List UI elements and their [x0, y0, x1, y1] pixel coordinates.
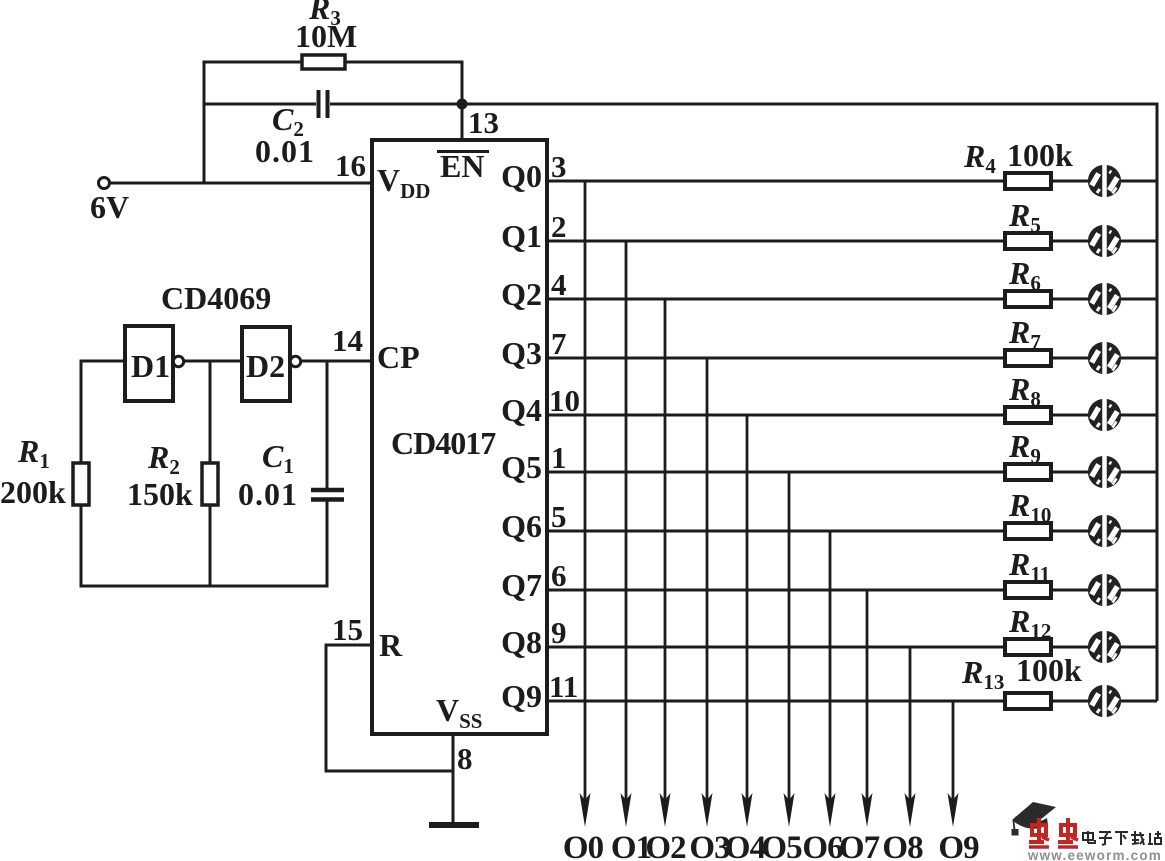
arrow: output O6: [825, 793, 836, 827]
svg-text:O8: O8: [882, 830, 923, 861]
wire: R3 loop top-right horizontal: [345, 61, 464, 64]
wire: Q9 output to resistor R13: [547, 700, 1005, 703]
arrow: output O3: [702, 793, 713, 827]
arrow: output O9: [948, 793, 959, 827]
wire: resistor R6 to LED: [1051, 298, 1088, 301]
wire: C2 left lead: [203, 103, 317, 106]
svg-text:100k: 100k: [1007, 137, 1073, 173]
inverter D2 body: [242, 327, 290, 401]
svg-text:14: 14: [332, 323, 363, 358]
wire: resistor R10 to LED: [1051, 530, 1088, 533]
capacitor C2: [317, 90, 321, 118]
wire: R2 lower lead: [209, 505, 212, 588]
logo: chongchong red characters: [1029, 818, 1078, 847]
LED VD6 (lamp symbol): [1089, 458, 1120, 487]
wire: VSS pin 8 lead: [452, 734, 455, 825]
wire: R pin vertical down: [325, 644, 328, 773]
wire: top rail to right side: [462, 103, 1159, 106]
wire: Q4 drop to output arrow O4: [746, 415, 749, 803]
svg-text:Q8: Q8: [501, 624, 542, 660]
wire: C1 lower lead: [326, 502, 329, 588]
wire: Q6 drop to output arrow O6: [829, 531, 832, 803]
wire: Q2 drop to output arrow O2: [664, 299, 667, 803]
LED VD4 (lamp symbol): [1089, 344, 1120, 373]
wire: LED to right rail: [1121, 589, 1157, 592]
wire: Q1 output to resistor R5: [547, 240, 1005, 243]
wire: LED to right rail: [1121, 700, 1157, 703]
wire: D1 output to D2 input: [185, 360, 243, 363]
svg-text:CD4017: CD4017: [391, 425, 496, 461]
svg-text:6: 6: [551, 558, 567, 593]
resistor R5: [1005, 233, 1051, 249]
wire: feedback to D1 input: [80, 360, 126, 363]
wire: resistor R8 to LED: [1051, 414, 1088, 417]
wire: resistor R13 to LED: [1051, 700, 1088, 703]
svg-text:Q3: Q3: [501, 335, 542, 371]
arrow: output O7: [862, 793, 873, 827]
wire: C2 right lead to node 13: [330, 103, 462, 106]
wire: Q6 output to resistor R10: [547, 530, 1005, 533]
wire: Q9 drop to output arrow O9: [952, 701, 955, 803]
capacitor C1: [311, 488, 344, 493]
arrow: output O1: [621, 793, 632, 827]
wire: LED to right rail: [1121, 646, 1157, 649]
arrow: output O2: [660, 793, 671, 827]
svg-text:4: 4: [551, 267, 567, 302]
wire: Q0 output to resistor R4: [547, 180, 1005, 183]
LED VD9 (lamp symbol): [1089, 633, 1120, 662]
wire: C1 upper lead: [326, 360, 329, 489]
inverter D2 output bubble: [290, 356, 300, 366]
wire: LED to right rail: [1121, 180, 1157, 183]
wire: R2 upper lead: [209, 360, 212, 464]
svg-text:Q4: Q4: [501, 392, 542, 428]
wire: R pin 15 horizontal: [325, 644, 373, 647]
svg-text:Q0: Q0: [501, 158, 542, 194]
svg-text:D2: D2: [246, 348, 285, 384]
wire: LED to right rail: [1121, 530, 1157, 533]
svg-text:0.01: 0.01: [238, 476, 298, 512]
svg-text:R: R: [379, 627, 403, 663]
svg-text:Q9: Q9: [501, 678, 542, 714]
svg-text:D1: D1: [131, 348, 170, 384]
terminal: 6V supply: [99, 178, 110, 189]
wire: resistor R5 to LED: [1051, 240, 1088, 243]
svg-text:15: 15: [332, 612, 363, 647]
wire: Q8 drop to output arrow O8: [909, 647, 912, 803]
svg-text:Q2: Q2: [501, 276, 542, 312]
wire: Q0 drop to output arrow O0: [584, 181, 587, 803]
svg-text:10: 10: [549, 383, 580, 418]
svg-text:1: 1: [551, 440, 567, 475]
resistor R11: [1005, 582, 1051, 598]
resistor R8: [1005, 407, 1051, 423]
wire: Q1 drop to output arrow O1: [625, 241, 628, 803]
wire: resistor R9 to LED: [1051, 471, 1088, 474]
wire: Q3 drop to output arrow O3: [706, 358, 709, 803]
wire: Q5 output to resistor R9: [547, 471, 1005, 474]
svg-text:13: 13: [468, 105, 499, 140]
wire: resistor R7 to LED: [1051, 357, 1088, 360]
wire: 6V supply to VDD pin 16: [110, 182, 373, 185]
svg-text:16: 16: [335, 148, 366, 183]
svg-text:O4: O4: [725, 830, 766, 861]
wire: Q7 output to resistor R11: [547, 589, 1005, 592]
svg-text:CD4069: CD4069: [161, 280, 271, 316]
wire: Q5 drop to output arrow O5: [788, 472, 791, 803]
svg-text:Q7: Q7: [501, 567, 542, 603]
inverter D1 body: [125, 326, 173, 401]
wire: LED to right rail: [1121, 298, 1157, 301]
wire: LED to right rail: [1121, 414, 1157, 417]
wire: Q3 output to resistor R7: [547, 357, 1005, 360]
svg-text:O6: O6: [802, 830, 843, 861]
ground: [429, 822, 479, 828]
svg-text:10M: 10M: [295, 18, 357, 54]
resistor R10: [1005, 523, 1051, 539]
wire: LED to right rail: [1121, 357, 1157, 360]
resistor R12: [1005, 639, 1051, 655]
svg-text:O5: O5: [761, 830, 802, 861]
wire: R1 lower lead: [80, 505, 83, 588]
svg-text:0.01: 0.01: [255, 133, 315, 169]
svg-text:5: 5: [551, 499, 567, 534]
resistor R13: [1005, 693, 1051, 709]
svg-text:200k: 200k: [0, 474, 66, 510]
LED VD1 (lamp symbol): [1089, 167, 1120, 196]
resistor R4: [1005, 173, 1051, 189]
wire: Q2 output to resistor R6: [547, 298, 1005, 301]
wire: right rail (LED common): [1156, 103, 1159, 702]
LED VD5 (lamp symbol): [1089, 401, 1120, 430]
svg-text:7: 7: [551, 326, 567, 361]
wire: resistor R4 to LED: [1051, 180, 1088, 183]
svg-text:100k: 100k: [1016, 652, 1082, 688]
arrow: output O5: [784, 793, 795, 827]
wire: left branch vertical: [203, 61, 206, 185]
wire: D2 output to CP pin 14: [302, 360, 373, 363]
svg-text:150k: 150k: [127, 476, 193, 512]
svg-text:CP: CP: [377, 339, 420, 375]
wire: LED to right rail: [1121, 240, 1157, 243]
wire: R pin to VSS horizontal: [326, 770, 453, 773]
wire: resistor R11 to LED: [1051, 589, 1088, 592]
svg-text:8: 8: [457, 741, 473, 776]
wire: R3 loop top-left horizontal: [203, 61, 303, 64]
svg-text:EN: EN: [440, 148, 484, 184]
LED VD2 (lamp symbol): [1089, 227, 1120, 256]
resistor R6: [1005, 291, 1051, 307]
resistor R1: [73, 463, 89, 505]
svg-text:9: 9: [551, 615, 567, 650]
svg-text:2: 2: [551, 209, 567, 244]
svg-text:6V: 6V: [90, 189, 129, 225]
svg-text:O9: O9: [938, 830, 979, 861]
wire: oscillator bottom feedback rail: [80, 585, 329, 588]
svg-text:Q5: Q5: [501, 449, 542, 485]
wire: resistor R12 to LED: [1051, 646, 1088, 649]
resistor R7: [1005, 350, 1051, 366]
wire: LED to right rail: [1121, 471, 1157, 474]
arrow: output O8: [905, 793, 916, 827]
IC U1 CD4017 body: [372, 140, 547, 734]
wire: R1 upper lead: [80, 360, 83, 464]
logo: site name characters: [1083, 831, 1161, 845]
wire: Q7 drop to output arrow O7: [866, 590, 869, 803]
svg-text:11: 11: [549, 669, 578, 704]
resistor R2: [202, 463, 218, 505]
node: junction above pin 13: [457, 99, 468, 110]
svg-text:3: 3: [551, 149, 567, 184]
resistor R3: [302, 55, 345, 69]
wire: Q8 output to resistor R12: [547, 646, 1005, 649]
arrow: output O4: [742, 793, 753, 827]
svg-text:Q1: Q1: [501, 218, 542, 254]
logo: graduation cap: [1012, 802, 1056, 824]
resistor R9: [1005, 464, 1051, 480]
arrow: output O0: [580, 793, 591, 827]
wire: EN pin 13 lead: [461, 62, 464, 141]
svg-text:O0: O0: [563, 830, 604, 861]
LED VD8 (lamp symbol): [1089, 576, 1120, 605]
svg-text:O2: O2: [645, 830, 686, 861]
LED VD10 (lamp symbol): [1089, 687, 1120, 716]
wire: Q4 output to resistor R8: [547, 414, 1005, 417]
LED VD7 (lamp symbol): [1089, 517, 1120, 546]
svg-text:O7: O7: [839, 830, 880, 861]
LED VD3 (lamp symbol): [1089, 285, 1120, 314]
svg-text:Q6: Q6: [501, 508, 542, 544]
inverter D1 output bubble: [173, 356, 183, 366]
svg-text:www.eeworm.com: www.eeworm.com: [1027, 848, 1162, 861]
